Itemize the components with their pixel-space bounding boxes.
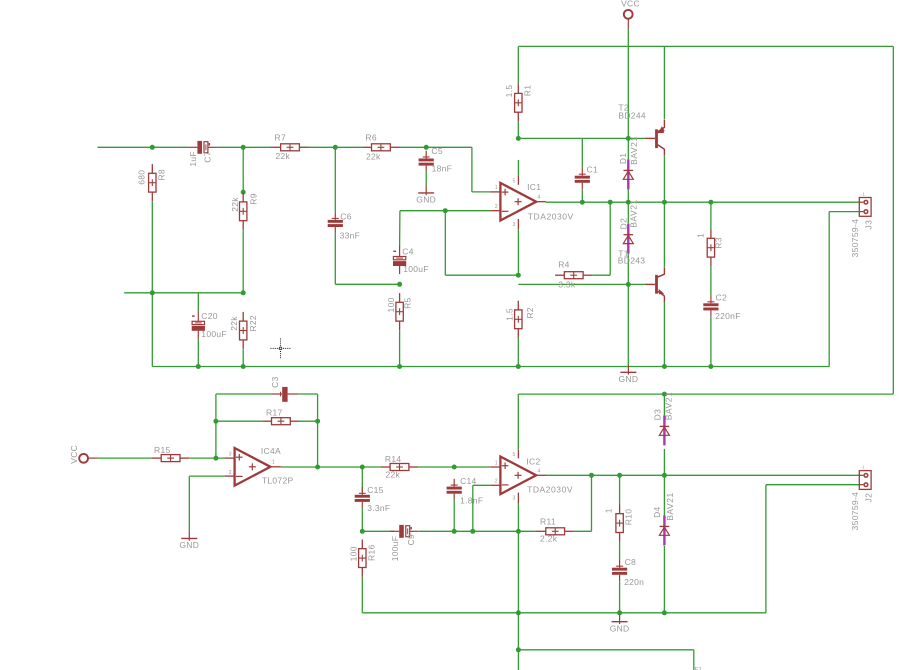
wire T1 emitter to rail bbox=[663, 302, 665, 367]
wire C7 to R7 bbox=[217, 146, 272, 148]
svg-text:TDA2030V: TDA2030V bbox=[528, 212, 574, 222]
svg-text:-1: -1 bbox=[861, 191, 866, 196]
op-amp IC1 TDA2030V bbox=[490, 175, 546, 229]
wire C2 to rail bbox=[710, 317, 712, 367]
svg-text:GND: GND bbox=[416, 195, 436, 205]
svg-text:3: 3 bbox=[513, 496, 516, 502]
wire R8 to wire2 bbox=[151, 201, 153, 292]
junction C5 top bbox=[424, 145, 429, 150]
wire R10 to C8 bbox=[619, 542, 621, 560]
svg-text:5: 5 bbox=[513, 452, 516, 458]
wire C15 bottom bbox=[361, 508, 363, 531]
wire feedback row bbox=[362, 530, 394, 532]
wire C20 top bbox=[197, 293, 199, 311]
svg-text:IC1: IC1 bbox=[527, 182, 541, 192]
svg-text:C6: C6 bbox=[340, 212, 351, 222]
wire VCC down bbox=[627, 29, 629, 139]
wire R17 row left bbox=[216, 420, 262, 422]
svg-text:TDA2030V: TDA2030V bbox=[527, 485, 573, 495]
wire input top rail y147 bbox=[98, 146, 189, 148]
junction R17 right bbox=[315, 419, 320, 424]
svg-text:100uF: 100uF bbox=[390, 536, 400, 562]
wire rail right edge down bbox=[892, 46, 894, 394]
wire J2 pin2 row bbox=[766, 484, 860, 486]
wire R4 right to corner bbox=[592, 274, 610, 276]
wire R11 corner up to output bbox=[591, 475, 593, 531]
wire minus input row bbox=[400, 210, 491, 212]
wire T2 base row bbox=[518, 137, 646, 139]
svg-text:BAV21: BAV21 bbox=[665, 492, 675, 521]
junction IC4A plus input bbox=[213, 456, 218, 461]
svg-text:C20: C20 bbox=[201, 311, 218, 321]
diode D1 BAV21 bbox=[623, 159, 633, 189]
svg-text:IC4A: IC4A bbox=[261, 446, 281, 456]
wire IC4A output row bbox=[281, 466, 381, 468]
junction output C1 bbox=[580, 200, 585, 205]
wire D4 top lead bbox=[663, 475, 665, 515]
svg-text:3.3k: 3.3k bbox=[558, 279, 576, 289]
wire base junction to ground bbox=[627, 284, 629, 365]
svg-text:220nF: 220nF bbox=[715, 311, 741, 321]
junction wire2 R22 bbox=[241, 290, 246, 295]
junction feedback C15 bbox=[360, 529, 365, 534]
svg-text:TL072P: TL072P bbox=[262, 475, 294, 485]
svg-text:22k: 22k bbox=[230, 197, 240, 212]
capacitor C20 bbox=[192, 311, 205, 339]
svg-text:BD243: BD243 bbox=[618, 256, 646, 266]
junction R9 column top bbox=[241, 145, 246, 150]
op-amp IC4A TL072P bbox=[225, 448, 281, 486]
junction output D4 bbox=[662, 473, 667, 478]
wire C14 bottom bbox=[453, 500, 455, 531]
wire IC2 output row bbox=[546, 474, 860, 476]
wire T2 emitter column upper bbox=[663, 46, 665, 119]
junction minus input drop bbox=[443, 208, 448, 213]
svg-text:BD244: BD244 bbox=[618, 110, 646, 120]
capacitor C2 bbox=[703, 296, 718, 317]
junction rail R5 bbox=[397, 364, 402, 369]
wire R17 row right bbox=[300, 420, 318, 422]
capacitor C6 bbox=[328, 212, 343, 233]
junction R9 top node bbox=[241, 190, 246, 195]
wire C3 loop top left bbox=[216, 393, 272, 395]
ground symbol below C5 bbox=[416, 186, 436, 205]
capacitor C5 bbox=[419, 151, 434, 172]
resistor R1 bbox=[515, 84, 522, 121]
wire minus drop corner to R4 row bbox=[445, 274, 518, 276]
resistor R14 bbox=[381, 464, 418, 471]
diode D4 BAV21 bbox=[659, 515, 669, 545]
wire R16 to bottom rail bbox=[361, 577, 363, 613]
resistor R4 bbox=[555, 272, 592, 279]
svg-text:BAV21: BAV21 bbox=[629, 199, 639, 228]
junction C14 top bbox=[452, 465, 457, 470]
svg-text:22k: 22k bbox=[366, 152, 381, 162]
junction wire2 R8 bbox=[150, 290, 155, 295]
resistor R6 bbox=[362, 144, 399, 151]
svg-text:D2: D2 bbox=[618, 218, 628, 229]
svg-text:C2: C2 bbox=[716, 292, 727, 302]
svg-text:3: 3 bbox=[229, 451, 232, 457]
wire IC2 minus input bbox=[473, 484, 491, 486]
wire J3 pin2 row bbox=[829, 211, 859, 213]
wire input lower wire2 bbox=[124, 292, 243, 294]
svg-text:J3: J3 bbox=[864, 220, 874, 230]
svg-text:-1: -1 bbox=[861, 464, 866, 469]
svg-text:R5: R5 bbox=[403, 297, 413, 308]
wire C3 loop right vertical bbox=[317, 394, 319, 467]
wire T1 collector from output bbox=[663, 202, 665, 267]
connector J2 350759-4 bbox=[859, 471, 871, 490]
junction output R11 corner bbox=[589, 473, 594, 478]
wire R11 right to corner bbox=[574, 530, 592, 532]
junction bottom rail IC2 vminus bbox=[516, 610, 521, 615]
wire C6 upper lead bbox=[334, 147, 336, 212]
wire D1 to output row bbox=[627, 189, 629, 202]
svg-text:220n: 220n bbox=[624, 577, 644, 587]
junction R4 row bbox=[516, 273, 521, 278]
svg-text:C4: C4 bbox=[402, 246, 413, 256]
svg-text:R22: R22 bbox=[248, 315, 258, 332]
svg-text:C7: C7 bbox=[203, 151, 213, 162]
svg-text:GND: GND bbox=[619, 374, 639, 384]
svg-text:350759-4: 350759-4 bbox=[850, 492, 860, 531]
svg-text:R7: R7 bbox=[275, 133, 286, 143]
wire vplus feed row bbox=[518, 393, 893, 395]
svg-text:R3: R3 bbox=[714, 237, 724, 248]
svg-text:C9: C9 bbox=[406, 534, 416, 545]
junction rail T1 emitter bbox=[662, 364, 667, 369]
svg-text:R16: R16 bbox=[367, 544, 377, 561]
svg-text:C8: C8 bbox=[625, 557, 636, 567]
svg-text:2: 2 bbox=[495, 204, 498, 210]
wire minus input corner down bbox=[188, 476, 190, 531]
wire IC1 plus input feed horizontal bbox=[472, 191, 491, 193]
wire C8 to bottom rail bbox=[619, 581, 621, 613]
wire D3 to output row bbox=[663, 449, 665, 475]
svg-text:C14: C14 bbox=[460, 476, 477, 486]
diode D2 BAV21 bbox=[623, 224, 633, 254]
svg-text:R2: R2 bbox=[525, 307, 535, 318]
svg-text:1.5: 1.5 bbox=[505, 308, 515, 321]
junction feedback minus drop bbox=[470, 529, 475, 534]
svg-text:R11: R11 bbox=[540, 517, 556, 527]
junction output R4 column bbox=[608, 200, 613, 205]
ground symbol main bbox=[619, 365, 639, 384]
junction rail R22 bbox=[241, 364, 246, 369]
junction output loop bbox=[315, 465, 320, 470]
svg-text:350759-4: 350759-4 bbox=[850, 219, 860, 258]
junction D3 top bbox=[662, 392, 667, 397]
svg-text:IC2: IC2 bbox=[526, 456, 540, 466]
connector J3 350759-4 bbox=[859, 198, 871, 217]
wire R14 to C14 node bbox=[418, 466, 490, 468]
wire C20 bottom to rail bbox=[197, 339, 199, 367]
svg-text:R9: R9 bbox=[249, 193, 259, 204]
wire R15 to plus input bbox=[189, 457, 225, 459]
capacitor C8 bbox=[612, 560, 627, 581]
wire C1 top bbox=[581, 138, 583, 168]
wire T2 collector to output row bbox=[663, 155, 665, 202]
junction output diodes bbox=[626, 200, 631, 205]
power VCC terminal top bbox=[624, 10, 633, 29]
junction feedback IC2 vminus bbox=[516, 529, 521, 534]
capacitor C14 bbox=[447, 479, 462, 500]
svg-text:R8: R8 bbox=[157, 169, 167, 180]
resistor R17 bbox=[262, 418, 299, 425]
wire R2 to rail bbox=[517, 338, 519, 367]
svg-text:3.3nF: 3.3nF bbox=[367, 503, 390, 513]
wire C1 bottom bbox=[581, 189, 583, 202]
capacitor C15 bbox=[355, 487, 370, 508]
wire top rail bbox=[518, 45, 893, 47]
svg-text:R15: R15 bbox=[154, 445, 171, 455]
resistor R15 bbox=[152, 455, 189, 462]
svg-text:1: 1 bbox=[695, 233, 705, 238]
ground symbol IC4A bbox=[179, 531, 199, 550]
capacitor C7 bbox=[188, 141, 216, 154]
wire C3 loop top right bbox=[299, 393, 318, 395]
junction feedback C14 bbox=[452, 529, 457, 534]
svg-text:680: 680 bbox=[137, 170, 147, 185]
wire R10 top lead bbox=[619, 475, 621, 504]
wire C5 to ground bbox=[425, 172, 427, 186]
svg-text:R10: R10 bbox=[623, 509, 633, 526]
svg-text:22k: 22k bbox=[229, 316, 239, 331]
resistor R22 bbox=[240, 312, 247, 349]
svg-text:C1: C1 bbox=[587, 165, 598, 175]
svg-text:C3: C3 bbox=[270, 376, 280, 387]
svg-text:BAV21: BAV21 bbox=[629, 136, 639, 165]
wire R4 corner up to output bbox=[609, 202, 611, 275]
junction below rail branch bbox=[516, 647, 521, 652]
wire D2 top lead bbox=[627, 202, 629, 224]
svg-text:3: 3 bbox=[513, 222, 516, 228]
junction T1 base bbox=[626, 282, 631, 287]
wire overlap R7 right lead bbox=[300, 146, 309, 148]
svg-text:R6: R6 bbox=[365, 133, 376, 143]
capacitor C4 bbox=[393, 246, 406, 274]
resistor R8 bbox=[149, 164, 156, 201]
wire R3 to C2 bbox=[710, 266, 712, 295]
svg-text:D1: D1 bbox=[618, 153, 628, 164]
wire below rail vertical bbox=[517, 613, 519, 670]
wire R9 to wire2 bbox=[242, 230, 244, 293]
svg-text:1: 1 bbox=[604, 508, 614, 513]
wire IC4A minus input bbox=[189, 475, 225, 477]
wire bottom branch down bbox=[693, 650, 695, 670]
capacitor C9 bbox=[390, 525, 418, 538]
svg-text:22k: 22k bbox=[386, 470, 401, 480]
wire R6 to C5 node bbox=[399, 146, 472, 148]
wire R7 to R6 bbox=[309, 146, 363, 148]
wire minus drop vertical bbox=[444, 211, 446, 276]
diode D3 BAV21 bbox=[659, 415, 669, 445]
junction output R3 bbox=[708, 200, 713, 205]
wire R1 to base row bbox=[517, 121, 519, 138]
wire R5 to rail bbox=[399, 331, 401, 367]
junction R1 bottom bbox=[516, 136, 521, 141]
wire output row bbox=[546, 201, 860, 203]
wire D4 to bottom rail bbox=[663, 546, 665, 613]
wire IC2 vplus feed top bbox=[517, 394, 519, 450]
junction output R10 bbox=[617, 473, 622, 478]
svg-text:J2: J2 bbox=[864, 493, 874, 503]
crosshair cursor bbox=[271, 338, 291, 358]
resistor R5 bbox=[396, 293, 403, 330]
svg-text:1: 1 bbox=[272, 460, 275, 466]
wire J3 pin2 column to rail bbox=[828, 212, 830, 367]
wire minus input corner to C4 bbox=[399, 211, 401, 247]
wire bottom rail bbox=[362, 612, 766, 614]
svg-text:2: 2 bbox=[229, 470, 232, 476]
capacitor C3 bbox=[272, 387, 299, 402]
wire bottom rail corner up to J2 bbox=[765, 485, 767, 613]
junction R17 left bbox=[213, 419, 218, 424]
junction bottom rail C8 bbox=[617, 610, 622, 615]
svg-text:2.2k: 2.2k bbox=[540, 533, 558, 543]
svg-text:D4: D4 bbox=[652, 506, 662, 517]
svg-text:18nF: 18nF bbox=[432, 164, 453, 174]
resistor R3 bbox=[707, 229, 714, 266]
junction C6 top bbox=[333, 145, 338, 150]
resistor R16 bbox=[359, 540, 366, 577]
wire R8 column to rail bbox=[151, 293, 153, 367]
wire IC1 plus input feed vertical bbox=[471, 147, 473, 192]
wire bottom branch horizontal bbox=[518, 649, 693, 651]
svg-text:2: 2 bbox=[495, 479, 498, 485]
wire IC2 vminus to bottom rail bbox=[517, 531, 519, 613]
ground symbol bottom bbox=[610, 615, 630, 634]
wire R22 to rail bbox=[242, 349, 244, 366]
resistor R2 bbox=[515, 301, 522, 338]
junction C4 bottom node bbox=[397, 282, 402, 287]
junction rail R2 bbox=[516, 364, 521, 369]
wire ground rail bbox=[152, 366, 829, 368]
junction output transistors bbox=[662, 200, 667, 205]
svg-text:1: 1 bbox=[495, 460, 498, 466]
wire C3 loop left vertical bbox=[215, 394, 217, 458]
svg-text:R14: R14 bbox=[385, 454, 402, 464]
power VCC terminal left bbox=[79, 454, 98, 463]
junction R8 top bbox=[150, 145, 155, 150]
svg-text:100uF: 100uF bbox=[201, 329, 227, 339]
wire C15 column top bbox=[361, 467, 363, 492]
junction output C15 bbox=[360, 465, 365, 470]
wire feedback row right part bbox=[419, 530, 537, 532]
svg-text:100: 100 bbox=[349, 546, 359, 561]
svg-text:R4: R4 bbox=[558, 260, 569, 270]
svg-text:R17: R17 bbox=[266, 408, 283, 418]
wire IC1 vminus to R4 row bbox=[517, 229, 519, 275]
svg-text:C15: C15 bbox=[367, 485, 384, 495]
junction rail C2 bbox=[708, 364, 713, 369]
resistor R7 bbox=[271, 144, 308, 151]
svg-text:1: 1 bbox=[495, 185, 498, 191]
wire D3 top lead bbox=[663, 394, 665, 415]
wire D1 top lead bbox=[627, 138, 629, 159]
wire C6 bottom to corner bbox=[334, 233, 336, 284]
wire C6 corner to C4 node bbox=[335, 283, 399, 285]
wire R3 top bbox=[710, 202, 712, 229]
wire IC2 minus drop bbox=[472, 485, 474, 531]
svg-text:1.8nF: 1.8nF bbox=[460, 496, 483, 506]
resistor R10 bbox=[616, 505, 623, 542]
transistor T2 BD244 PNP bbox=[645, 120, 664, 155]
svg-text:C5: C5 bbox=[431, 146, 442, 156]
svg-text:VCC: VCC bbox=[69, 445, 79, 464]
junction base row VCC column bbox=[626, 136, 631, 141]
wire IC1 vplus pin bbox=[517, 160, 519, 175]
op-amp IC2 TDA2030V bbox=[490, 450, 546, 504]
svg-text:5: 5 bbox=[513, 178, 516, 184]
wire IC2 vminus down bbox=[517, 504, 519, 532]
svg-text:D3: D3 bbox=[652, 409, 662, 420]
svg-text:4: 4 bbox=[538, 468, 541, 474]
wire R9 column upper bbox=[242, 147, 244, 192]
junction rail C20 bbox=[196, 364, 201, 369]
wire T1 base row bbox=[518, 283, 646, 285]
svg-text:4: 4 bbox=[538, 195, 541, 201]
svg-text:R1: R1 bbox=[522, 85, 532, 96]
capacitor C1 bbox=[575, 168, 590, 189]
svg-text:1.5: 1.5 bbox=[504, 85, 514, 98]
resistor R9 bbox=[240, 193, 247, 230]
svg-text:33nF: 33nF bbox=[340, 230, 361, 240]
svg-text:GND: GND bbox=[610, 623, 630, 633]
junction bottom rail D4 bbox=[662, 610, 667, 615]
wire VCC to R15 bbox=[98, 457, 152, 459]
svg-text:100uF: 100uF bbox=[403, 264, 429, 274]
transistor T1 BD243 NPN bbox=[645, 267, 664, 302]
wire D2 to base junction bbox=[627, 254, 629, 285]
svg-text:22k: 22k bbox=[276, 151, 291, 161]
resistor R11 bbox=[537, 528, 574, 535]
svg-text:VCC: VCC bbox=[621, 0, 640, 9]
wire rail corner to R1 bbox=[517, 46, 519, 84]
svg-text:GND: GND bbox=[179, 540, 199, 550]
svg-text:100: 100 bbox=[386, 297, 396, 312]
svg-text:1uF: 1uF bbox=[188, 151, 198, 167]
